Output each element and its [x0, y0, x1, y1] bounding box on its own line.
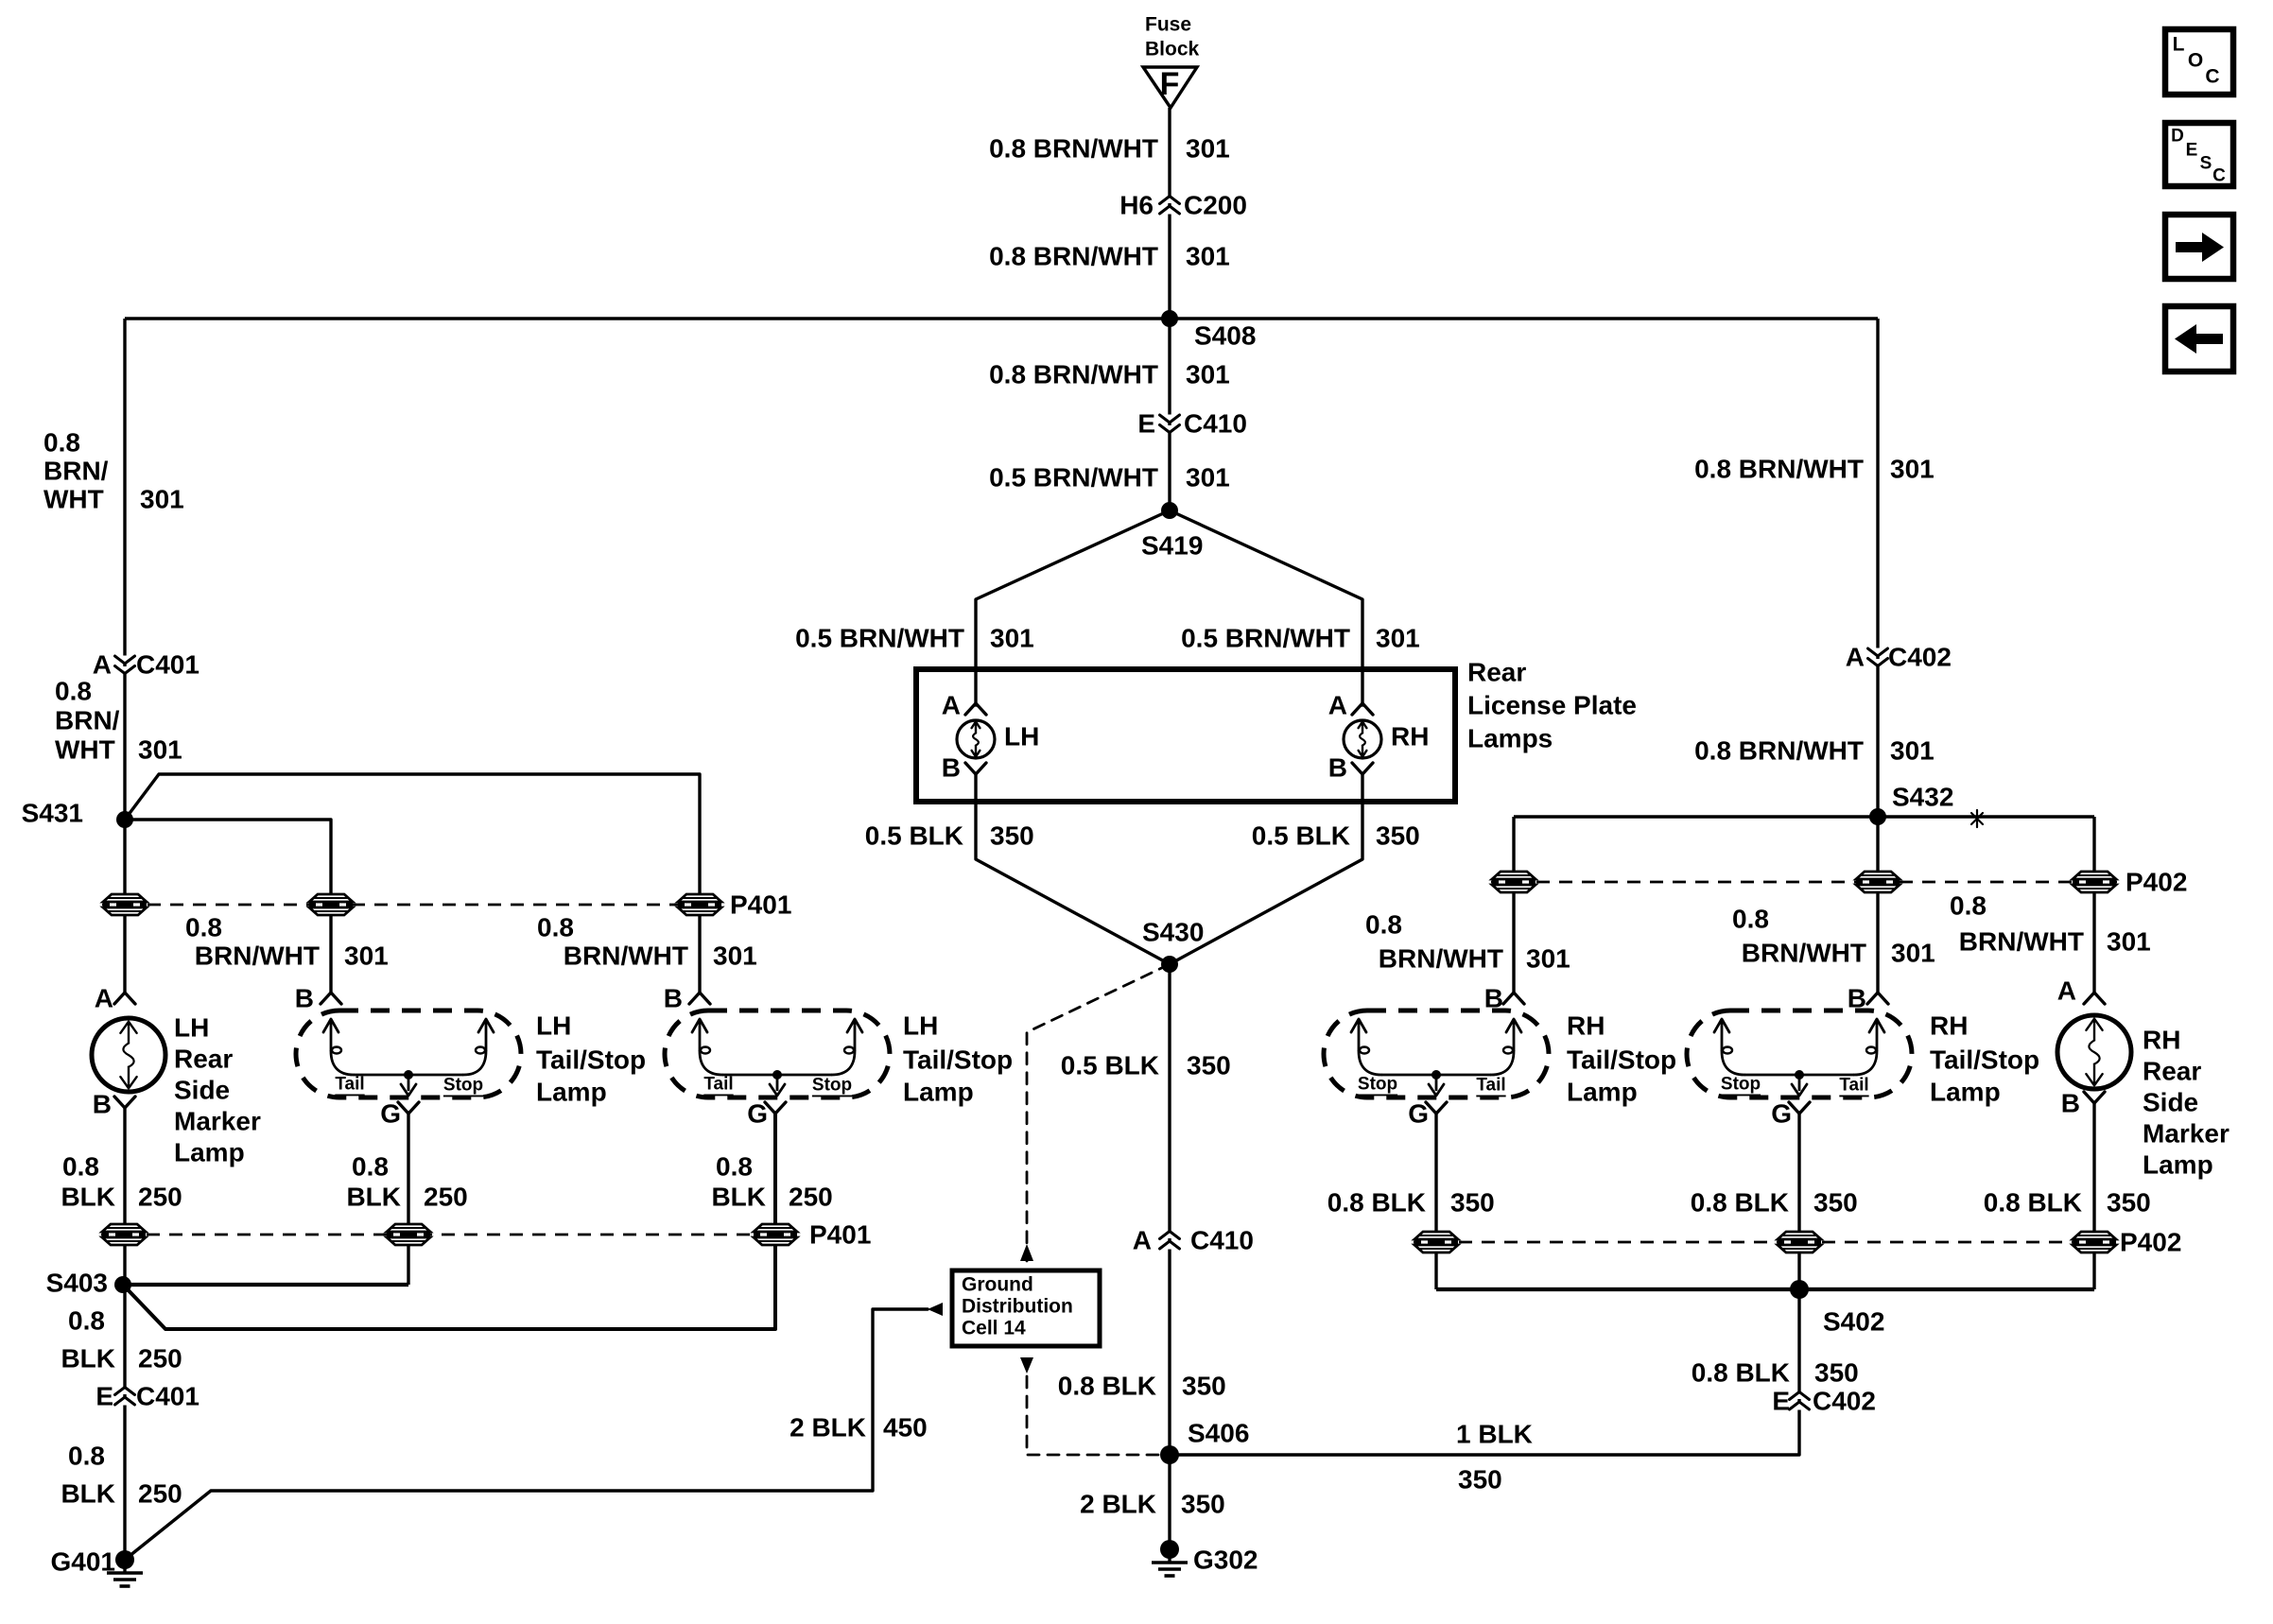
- svg-text:P401: P401: [809, 1220, 871, 1250]
- svg-text:Rear: Rear: [1467, 658, 1526, 687]
- svg-text:Block: Block: [1145, 39, 1200, 60]
- svg-text:0.8 BRN/WHT: 0.8 BRN/WHT: [1694, 736, 1864, 766]
- svg-text:301: 301: [1891, 939, 1935, 968]
- svg-text:C402: C402: [1813, 1387, 1876, 1416]
- wire S431 to LH tail lamp 1: [125, 820, 331, 993]
- svg-text:BRN/: BRN/: [55, 706, 120, 735]
- svg-text:Side: Side: [174, 1076, 230, 1105]
- svg-text:Stop: Stop: [1358, 1075, 1397, 1095]
- svg-text:C402: C402: [1888, 643, 1952, 672]
- label 0.8 BRN/WHT 301 (below C401): [55, 677, 182, 765]
- svg-text:Lamp: Lamp: [1930, 1078, 2001, 1107]
- svg-text:S408: S408: [1194, 321, 1256, 351]
- svg-text:0.5 BRN/WHT: 0.5 BRN/WHT: [795, 624, 964, 653]
- wire LH marker B to S403: [123, 1108, 126, 1285]
- RH license plate lamp: [1344, 720, 1429, 758]
- svg-text:Rear: Rear: [174, 1045, 233, 1074]
- icon box arrow left: [2165, 306, 2233, 371]
- RH marker lamp pin B: [2061, 1089, 2105, 1118]
- svg-text:301: 301: [713, 942, 757, 971]
- label 0.8 BRN/WHT 301 (LH tail lamp 1): [185, 913, 389, 971]
- label 0.5 BLK 350 (RH license gnd): [1252, 821, 1420, 851]
- label 0.8 BLK 350 (RH marker gnd): [1984, 1188, 2151, 1218]
- label 0.8 BRN/WHT 301 (left feed): [43, 428, 184, 514]
- svg-text:BRN/WHT: BRN/WHT: [1959, 927, 2084, 957]
- svg-text:C200: C200: [1184, 191, 1247, 220]
- label 0.8 BLK 250 (above G401): [61, 1442, 182, 1509]
- svg-text:250: 250: [789, 1183, 833, 1212]
- svg-text:A: A: [942, 691, 961, 720]
- svg-text:350: 350: [1181, 1490, 1225, 1519]
- label 0.8 BLK 250 (LH tail 2 gnd): [711, 1152, 832, 1212]
- svg-text:0.8: 0.8: [68, 1306, 105, 1336]
- svg-text:Lamp: Lamp: [2143, 1150, 2213, 1180]
- label 2 BLK 450: [789, 1413, 928, 1443]
- svg-text:Distribution: Distribution: [962, 1296, 1073, 1318]
- wire fuse to S408: [1168, 108, 1171, 319]
- splice S430: [1142, 918, 1204, 974]
- label 0.8 BRN/WHT 301 (below C200): [989, 242, 1230, 271]
- svg-text:Lamp: Lamp: [174, 1138, 245, 1167]
- svg-text:Marker: Marker: [174, 1107, 261, 1136]
- wire S403 bus: [123, 1283, 408, 1287]
- svg-text:Stop: Stop: [443, 1076, 483, 1096]
- RH tail/stop lamp 1: [1324, 1011, 1676, 1107]
- svg-text:0.8: 0.8: [716, 1152, 753, 1182]
- svg-text:0.5 BLK: 0.5 BLK: [865, 821, 963, 851]
- label 2 BLK 350 (to G302): [1080, 1490, 1225, 1519]
- svg-text:350: 350: [990, 821, 1034, 851]
- label 0.8 BLK 350 (above S406): [1058, 1372, 1226, 1401]
- svg-text:RH: RH: [1930, 1011, 1968, 1041]
- svg-text:L: L: [2173, 34, 2185, 56]
- svg-text:BLK: BLK: [346, 1183, 401, 1212]
- fuse block symbol F: [1143, 66, 1197, 108]
- asterisk mark on S432 bus: [1971, 810, 1983, 827]
- svg-text:LH: LH: [903, 1011, 938, 1041]
- LH license lamp pin B: [942, 753, 986, 783]
- svg-text:B: B: [942, 753, 961, 783]
- LH rear side marker lamp: [92, 1013, 261, 1167]
- svg-text:F: F: [1160, 66, 1180, 102]
- svg-text:Lamp: Lamp: [903, 1078, 974, 1107]
- svg-text:0.8 BRN/WHT: 0.8 BRN/WHT: [1694, 455, 1864, 484]
- svg-text:301: 301: [344, 942, 389, 971]
- svg-text:0.8 BLK: 0.8 BLK: [1691, 1188, 1789, 1218]
- svg-text:S406: S406: [1188, 1419, 1249, 1448]
- svg-text:BRN/WHT: BRN/WHT: [564, 942, 688, 971]
- svg-text:0.8: 0.8: [1365, 910, 1402, 940]
- label 0.5 BRN/WHT 301 (LH license): [795, 624, 1034, 653]
- svg-text:350: 350: [1458, 1465, 1502, 1494]
- svg-text:LH: LH: [536, 1011, 571, 1041]
- label 0.5 BLK 350 (below S430): [1061, 1051, 1231, 1080]
- svg-text:Cell 14: Cell 14: [962, 1318, 1026, 1339]
- LH marker lamp pin A: [95, 984, 135, 1013]
- arrowhead up (ground distribution): [1020, 1244, 1033, 1261]
- svg-text:2 BLK: 2 BLK: [789, 1413, 866, 1443]
- wire 2 BLK 450 to ground distribution: [125, 1309, 928, 1560]
- svg-text:301: 301: [1526, 944, 1570, 974]
- svg-text:Tail: Tail: [335, 1075, 364, 1095]
- svg-text:S403: S403: [46, 1269, 108, 1298]
- svg-text:S431: S431: [22, 799, 83, 828]
- svg-text:S430: S430: [1142, 918, 1204, 947]
- wire S403 to G401: [123, 1285, 126, 1560]
- ground G401: [51, 1547, 144, 1587]
- svg-text:P402: P402: [2126, 868, 2187, 897]
- wire S408 horizontal bus: [125, 317, 1878, 320]
- wire S406 to G302: [1168, 1455, 1171, 1549]
- splice S402: [1790, 1280, 1884, 1337]
- RH tail lamp 1 pin B: [1484, 984, 1524, 1013]
- svg-text:0.8: 0.8: [43, 428, 80, 458]
- fuse block label: [1145, 14, 1200, 60]
- svg-text:H6: H6: [1119, 191, 1154, 220]
- svg-text:D: D: [2171, 127, 2184, 147]
- svg-text:0.8: 0.8: [352, 1152, 389, 1182]
- svg-text:350: 350: [1182, 1372, 1226, 1401]
- svg-text:WHT: WHT: [55, 735, 115, 765]
- splice S406: [1160, 1419, 1249, 1465]
- svg-text:0.5 BRN/WHT: 0.5 BRN/WHT: [1181, 624, 1350, 653]
- svg-text:Tail/Stop: Tail/Stop: [1567, 1045, 1676, 1075]
- connector C401 pin E: [95, 1382, 200, 1411]
- svg-text:1 BLK: 1 BLK: [1456, 1420, 1533, 1449]
- svg-text:G: G: [380, 1099, 401, 1129]
- svg-text:B: B: [664, 984, 683, 1013]
- icon box DESC: [2165, 123, 2233, 186]
- splice S403: [46, 1269, 131, 1298]
- ground distribution cell 14 box: [952, 1270, 1100, 1346]
- svg-text:BLK: BLK: [61, 1344, 115, 1373]
- label 0.8 BRN/WHT 301 (right feed): [1694, 455, 1935, 484]
- svg-text:G401: G401: [51, 1547, 116, 1577]
- connector C410 pin E: [1137, 409, 1247, 439]
- wire S430 to S406: [1168, 964, 1171, 1455]
- label 0.8 BRN/WHT 301 (below C402): [1694, 736, 1935, 766]
- svg-text:250: 250: [138, 1344, 182, 1373]
- svg-text:0.5 BLK: 0.5 BLK: [1252, 821, 1350, 851]
- svg-text:P402: P402: [2120, 1228, 2181, 1257]
- RH tail/stop lamp 2: [1687, 1011, 2039, 1107]
- label 0.8 BLK 250 (LH marker gnd): [61, 1152, 182, 1212]
- svg-text:C410: C410: [1184, 409, 1247, 439]
- wire S432 bus: [1514, 815, 2094, 818]
- svg-text:301: 301: [1186, 463, 1230, 492]
- svg-text:Side: Side: [2143, 1088, 2198, 1117]
- label 0.8 BLK 350 (RH tail 1 gnd): [1327, 1188, 1495, 1218]
- svg-text:0.8 BLK: 0.8 BLK: [1984, 1188, 2082, 1218]
- svg-text:350: 350: [1376, 821, 1420, 851]
- label 0.8 BLK 350 (above C402 E): [1692, 1358, 1859, 1388]
- svg-text:BRN/: BRN/: [43, 457, 109, 486]
- arrowhead down (ground distribution): [1020, 1357, 1033, 1373]
- svg-text:350: 350: [1814, 1358, 1859, 1388]
- svg-text:B: B: [1328, 753, 1347, 783]
- splice S432: [1869, 783, 1953, 826]
- svg-text:G: G: [747, 1099, 768, 1129]
- label 0.8 BLK 250 (LH tail 1 gnd): [346, 1152, 467, 1212]
- wire left feed (S408 bus to LH marker lamp): [123, 319, 126, 993]
- wire RH marker B to S402 bus: [2092, 1103, 2095, 1289]
- wire LH tail 2 G to S403: [123, 1114, 775, 1329]
- LH tail lamp 2 pin B: [664, 984, 710, 1013]
- svg-text:S419: S419: [1141, 531, 1203, 561]
- svg-text:BLK: BLK: [711, 1183, 766, 1212]
- connector C401 pin A: [93, 650, 200, 680]
- svg-text:0.8 BRN/WHT: 0.8 BRN/WHT: [989, 242, 1158, 271]
- svg-text:Marker: Marker: [2143, 1119, 2230, 1149]
- label 0.8 BLK 250 (below S403): [61, 1306, 182, 1373]
- svg-text:301: 301: [138, 735, 182, 765]
- label 0.8 BLK 350 (RH tail 2 gnd): [1691, 1188, 1858, 1218]
- RH tail lamp 2 pin B: [1848, 984, 1888, 1013]
- splice S431: [22, 799, 133, 829]
- svg-text:301: 301: [140, 485, 184, 514]
- splice S408: [1161, 310, 1256, 351]
- connector C200 pin H6: [1119, 191, 1247, 220]
- svg-text:A: A: [95, 984, 113, 1013]
- svg-text:250: 250: [424, 1183, 468, 1212]
- svg-text:0.8: 0.8: [1950, 891, 1987, 921]
- grommet P402 row (ground): [1414, 1228, 2181, 1257]
- svg-text:0.8: 0.8: [62, 1152, 99, 1182]
- svg-text:0.8: 0.8: [55, 677, 92, 706]
- arrowhead left (2 BLK 450): [928, 1303, 943, 1316]
- svg-text:0.8 BLK: 0.8 BLK: [1692, 1358, 1790, 1388]
- svg-text:Stop: Stop: [812, 1076, 852, 1096]
- svg-text:301: 301: [1186, 360, 1230, 389]
- label 0.8 BRN/WHT 301 (below S408): [989, 360, 1230, 389]
- svg-text:BRN/WHT: BRN/WHT: [195, 942, 320, 971]
- svg-text:2 BLK: 2 BLK: [1080, 1490, 1156, 1519]
- svg-text:0.8 BRN/WHT: 0.8 BRN/WHT: [989, 134, 1158, 164]
- LH tail/stop lamp 2: [665, 1011, 1013, 1107]
- svg-text:A: A: [2057, 976, 2076, 1006]
- svg-text:C401: C401: [136, 1382, 200, 1411]
- svg-text:B: B: [295, 984, 314, 1013]
- svg-text:Tail/Stop: Tail/Stop: [1930, 1045, 2039, 1075]
- svg-text:G302: G302: [1193, 1546, 1258, 1575]
- wire RH license B to S430: [1170, 774, 1362, 964]
- RH license lamp pin B: [1328, 753, 1373, 783]
- svg-text:301: 301: [1186, 242, 1230, 271]
- svg-text:0.5 BRN/WHT: 0.5 BRN/WHT: [989, 463, 1158, 492]
- dashed wire ground distribution to S406: [1027, 1376, 1170, 1455]
- svg-text:C: C: [2205, 66, 2219, 88]
- label 0.8 BRN/WHT 301 (RH tail 1): [1365, 910, 1570, 974]
- svg-text:301: 301: [1890, 455, 1935, 484]
- svg-text:Rear: Rear: [2143, 1057, 2201, 1086]
- svg-text:0.8 BLK: 0.8 BLK: [1327, 1188, 1426, 1218]
- svg-text:O: O: [2188, 50, 2203, 72]
- svg-text:350: 350: [2107, 1188, 2151, 1218]
- svg-text:301: 301: [1376, 624, 1420, 653]
- svg-text:A: A: [93, 650, 112, 680]
- RH license lamp pin A: [1328, 691, 1373, 720]
- wire RH tail 1 G to S402 bus: [1434, 1114, 1437, 1289]
- LH marker lamp pin B: [93, 1090, 135, 1119]
- svg-text:250: 250: [138, 1479, 182, 1509]
- svg-text:Lamp: Lamp: [1567, 1078, 1638, 1107]
- wire S408 to C410: [1168, 319, 1171, 510]
- svg-text:BRN/WHT: BRN/WHT: [1742, 939, 1866, 968]
- svg-text:E: E: [95, 1382, 113, 1411]
- label 0.8 BRN/WHT 301 (fuse feed): [989, 134, 1230, 164]
- svg-text:RH: RH: [1567, 1011, 1605, 1041]
- svg-text:G: G: [1771, 1099, 1792, 1129]
- LH license plate lamp: [957, 720, 1039, 758]
- svg-text:301: 301: [1186, 134, 1230, 164]
- svg-text:E: E: [2186, 141, 2198, 161]
- svg-text:C410: C410: [1190, 1226, 1254, 1255]
- svg-text:Tail/Stop: Tail/Stop: [536, 1045, 646, 1075]
- connector C410 pin A: [1133, 1226, 1254, 1255]
- svg-text:Lamp: Lamp: [536, 1078, 607, 1107]
- connector C402 pin E: [1772, 1387, 1876, 1416]
- rear license plate lamps box: [916, 658, 1637, 803]
- svg-text:G: G: [1408, 1099, 1429, 1129]
- svg-text:WHT: WHT: [43, 485, 104, 514]
- svg-text:E: E: [1772, 1387, 1790, 1416]
- svg-text:0.8 BLK: 0.8 BLK: [1058, 1372, 1156, 1401]
- svg-text:LH: LH: [1004, 722, 1039, 752]
- svg-text:BLK: BLK: [61, 1479, 115, 1509]
- svg-text:A: A: [1328, 691, 1347, 720]
- svg-text:BLK: BLK: [61, 1183, 115, 1212]
- svg-text:0.5 BLK: 0.5 BLK: [1061, 1051, 1159, 1080]
- svg-text:B: B: [93, 1090, 112, 1119]
- svg-text:0.8 BRN/WHT: 0.8 BRN/WHT: [989, 360, 1158, 389]
- ground G302: [1152, 1540, 1258, 1576]
- svg-text:BRN/WHT: BRN/WHT: [1379, 944, 1503, 974]
- svg-text:E: E: [1137, 409, 1155, 439]
- svg-text:S432: S432: [1892, 783, 1953, 812]
- RH tail lamp 1 pin G: [1408, 1099, 1447, 1129]
- wire S432 to RH tail lamp 2: [1876, 817, 1879, 993]
- grommet P402 row (power): [1491, 868, 2187, 897]
- dashed wire S430 to ground distribution: [1027, 964, 1170, 1261]
- LH tail lamp 2 pin G: [747, 1099, 786, 1129]
- RH tail lamp 2 pin G: [1771, 1099, 1810, 1129]
- wire right feed (S408 bus to S432): [1876, 319, 1879, 817]
- svg-text:S402: S402: [1823, 1307, 1884, 1337]
- svg-text:C: C: [2212, 166, 2226, 186]
- RH rear side marker lamp: [2057, 1015, 2230, 1180]
- LH tail/stop lamp 1: [296, 1011, 646, 1107]
- svg-text:0.8: 0.8: [185, 913, 222, 942]
- svg-text:Tail: Tail: [1476, 1076, 1505, 1096]
- svg-text:License Plate: License Plate: [1467, 691, 1637, 720]
- svg-text:A: A: [1846, 643, 1865, 672]
- svg-text:Lamps: Lamps: [1467, 724, 1553, 753]
- svg-text:Tail/Stop: Tail/Stop: [903, 1045, 1013, 1075]
- svg-text:0.8: 0.8: [68, 1442, 105, 1471]
- icon box arrow right: [2165, 215, 2233, 279]
- label 0.8 BRN/WHT 301 (RH tail 2): [1732, 905, 1935, 968]
- wire LH tail 1 G to S403: [407, 1114, 409, 1285]
- svg-text:B: B: [2061, 1089, 2080, 1118]
- icon box LOC: [2165, 29, 2233, 95]
- svg-text:A: A: [1133, 1226, 1152, 1255]
- wire S419 to LH license lamp: [976, 510, 1170, 705]
- wire S406 to C402: [1170, 1289, 1799, 1455]
- LH tail lamp 1 pin G: [380, 1099, 419, 1129]
- wire S432 to RH marker lamp: [2092, 817, 2095, 993]
- svg-text:350: 350: [1450, 1188, 1495, 1218]
- svg-text:350: 350: [1813, 1188, 1858, 1218]
- svg-text:0.8: 0.8: [537, 913, 574, 942]
- label 0.5 BLK 350 (LH license gnd): [865, 821, 1034, 851]
- RH marker lamp pin A: [2057, 976, 2105, 1006]
- svg-text:S: S: [2200, 154, 2212, 174]
- svg-text:RH: RH: [1391, 722, 1429, 752]
- connector C402 pin A: [1846, 643, 1952, 672]
- wire S432 to RH tail lamp 1: [1512, 817, 1515, 993]
- svg-text:P401: P401: [730, 890, 791, 920]
- svg-text:301: 301: [1890, 736, 1935, 766]
- svg-text:Tail: Tail: [703, 1075, 733, 1095]
- svg-text:0.8: 0.8: [1732, 905, 1769, 934]
- svg-text:Fuse: Fuse: [1145, 14, 1191, 36]
- splice S419: [1141, 502, 1203, 561]
- svg-text:301: 301: [2107, 927, 2151, 957]
- svg-text:Ground: Ground: [962, 1274, 1033, 1296]
- label 0.5 BRN/WHT 301 (above S419): [989, 463, 1230, 492]
- wire S431 to LH tail lamp 2: [125, 774, 700, 993]
- svg-text:450: 450: [883, 1413, 928, 1443]
- wire RH tail 2 G to S402: [1797, 1114, 1800, 1289]
- grommet P401 row (power): [102, 890, 791, 920]
- svg-text:350: 350: [1187, 1051, 1231, 1080]
- svg-text:Stop: Stop: [1721, 1075, 1761, 1095]
- LH tail lamp 1 pin B: [295, 984, 341, 1013]
- wire S402 ground bus: [1436, 1287, 2094, 1291]
- label 0.8 BRN/WHT 301 (LH tail lamp 2): [537, 913, 757, 971]
- label 0.5 BRN/WHT 301 (RH license): [1181, 624, 1420, 653]
- wire LH license B to S430: [976, 774, 1170, 964]
- svg-text:Tail: Tail: [1839, 1076, 1868, 1096]
- wire S419 to RH license lamp: [1170, 510, 1362, 705]
- svg-text:C401: C401: [136, 650, 200, 680]
- svg-text:LH: LH: [174, 1013, 209, 1043]
- svg-text:250: 250: [138, 1183, 182, 1212]
- label 0.8 BRN/WHT 301 (RH marker): [1950, 891, 2151, 957]
- grommet P401 row (ground): [101, 1220, 871, 1250]
- svg-text:RH: RH: [2143, 1026, 2180, 1055]
- svg-text:301: 301: [990, 624, 1034, 653]
- label 1 BLK 350: [1456, 1420, 1533, 1494]
- LH license lamp pin A: [942, 691, 986, 720]
